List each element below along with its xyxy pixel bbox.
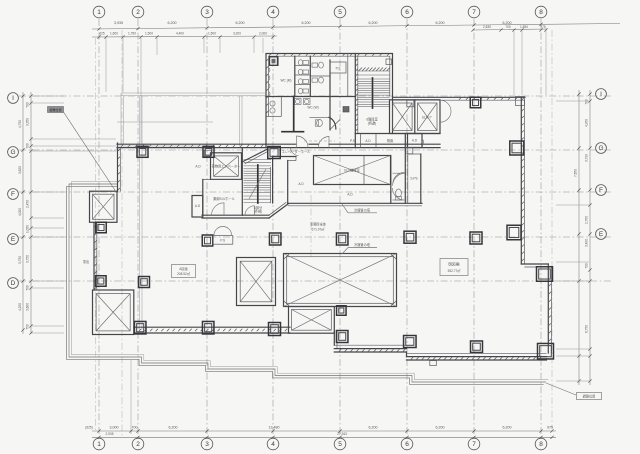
svg-text:1,850: 1,850	[520, 25, 528, 29]
svg-text:(特避): (特避)	[368, 121, 377, 126]
svg-text:975: 975	[540, 25, 546, 29]
right wall jog at E	[521, 264, 548, 267]
toilet stalls left	[295, 60, 310, 94]
svg-text:6,200: 6,200	[236, 21, 245, 25]
svg-text:G: G	[598, 145, 603, 152]
svg-text:WC (M): WC (M)	[281, 79, 292, 83]
T-shaped pier wall	[282, 97, 304, 132]
svg-text:6,200: 6,200	[436, 21, 445, 25]
svg-text:3,935: 3,935	[114, 21, 123, 25]
AD box right of elevators	[408, 134, 424, 148]
svg-text:2,000: 2,000	[259, 32, 267, 36]
svg-text:3,200: 3,200	[233, 32, 241, 36]
svg-text:6,200: 6,200	[302, 21, 311, 25]
svg-text:6,200: 6,200	[169, 425, 178, 429]
svg-text:冷媒管の塔: 冷媒管の塔	[354, 208, 371, 213]
svg-text:A.D: A.D	[365, 139, 371, 143]
roomlets strip below stair 2	[350, 134, 440, 148]
elevator hall walls	[203, 179, 242, 215]
void box B with X	[237, 258, 276, 306]
columns on south band	[134, 321, 146, 334]
column right wall jog	[537, 267, 553, 282]
svg-text:A.D: A.D	[347, 193, 353, 197]
wall from grid4 column to machine area	[273, 156, 296, 158]
svg-text:2: 2	[136, 9, 140, 16]
svg-text:A区画: A区画	[179, 266, 188, 271]
stair 1 treads	[244, 160, 272, 203]
extension line below S2	[95, 38, 97, 430]
svg-text:P.S: P.S	[220, 239, 225, 243]
svg-text:208.52㎡: 208.52㎡	[177, 271, 191, 276]
column below S1	[96, 222, 107, 233]
svg-text:避難位置: 避難位置	[583, 394, 596, 399]
stair 2 upper hatch band	[359, 68, 391, 72]
freight elevator shaft	[204, 150, 241, 179]
svg-text:F: F	[599, 187, 603, 194]
svg-text:A.D: A.D	[195, 204, 201, 208]
AD shaft box at core bottom left	[192, 196, 203, 218]
svg-text:2,935: 2,935	[106, 432, 114, 436]
svg-text:1: 1	[97, 441, 101, 448]
svg-text:D: D	[11, 280, 16, 287]
svg-text:E: E	[599, 231, 604, 238]
svg-text:6,200: 6,200	[369, 425, 378, 429]
svg-text:4: 4	[271, 441, 275, 448]
column below void A	[337, 306, 347, 316]
svg-text:8: 8	[539, 441, 543, 448]
bottom dimension lines	[85, 425, 556, 439]
core top wall along G	[117, 145, 202, 147]
svg-text:3: 3	[205, 9, 209, 16]
grid bubbles bottom	[93, 438, 105, 450]
svg-text:4: 4	[271, 9, 275, 16]
svg-text:700: 700	[26, 102, 30, 108]
svg-text:1,500: 1,500	[208, 32, 216, 36]
escape position label top left	[48, 107, 118, 195]
svg-text:避難位置: 避難位置	[49, 107, 61, 112]
svg-text:7: 7	[472, 441, 476, 448]
svg-text:6,200: 6,200	[168, 21, 177, 25]
svg-text:3,750: 3,750	[18, 256, 22, 264]
svg-text:荷物用エレベーター: 荷物用エレベーター	[212, 164, 241, 169]
core chamfer wall	[269, 202, 289, 218]
right dimension lines	[556, 90, 592, 385]
svg-text:F: F	[11, 191, 15, 198]
svg-text:12,480: 12,480	[269, 425, 280, 429]
WC(M) room walls	[266, 56, 330, 96]
svg-text:(625): (625)	[85, 426, 92, 430]
stair 2 center rail	[372, 78, 374, 108]
svg-text:1,500: 1,500	[145, 32, 153, 36]
svg-text:700: 700	[585, 263, 589, 269]
stalls right section	[310, 56, 330, 130]
lower floor outline (faint)	[117, 93, 265, 330]
svg-text:5: 5	[338, 9, 342, 16]
svg-text:P.S: P.S	[350, 139, 355, 143]
void box C with X	[289, 307, 335, 334]
right outer wall lower	[548, 264, 551, 353]
svg-text:700: 700	[505, 25, 511, 29]
south wall band step 2	[334, 345, 406, 352]
terrace edge lines	[67, 182, 549, 385]
svg-text:3,620: 3,620	[18, 166, 22, 174]
svg-text:A.D: A.D	[195, 165, 201, 169]
svg-text:3,400: 3,400	[585, 239, 589, 247]
leader label 2	[342, 242, 377, 254]
svg-text:4,400: 4,400	[176, 32, 184, 36]
column grid G right wall	[510, 141, 524, 155]
small WC room below AD	[393, 173, 405, 201]
machine area left wall	[288, 157, 296, 204]
svg-text:6,200: 6,200	[503, 425, 512, 429]
accessible WC room	[310, 117, 341, 129]
svg-text:2,450: 2,450	[26, 200, 30, 208]
svg-text:700: 700	[26, 285, 30, 291]
stair 1 left wall	[241, 148, 243, 216]
svg-text:6: 6	[405, 441, 409, 448]
stair 2 treads	[358, 71, 390, 107]
grid4 column at core	[268, 147, 281, 159]
dimension extension lines right	[556, 100, 589, 102]
svg-text:2: 2	[136, 441, 140, 448]
column grid E right wall	[507, 225, 521, 240]
svg-text:P.S: P.S	[336, 67, 341, 71]
SPS room walls	[405, 134, 421, 204]
svg-text:乗用ELVホール: 乗用ELVホール	[213, 196, 236, 201]
svg-text:1,750: 1,750	[128, 32, 136, 36]
south band vertical drop	[334, 331, 337, 348]
svg-text:1: 1	[97, 9, 101, 16]
stair 2 left wall	[355, 54, 358, 148]
toilet block bottom door arcs	[297, 136, 330, 148]
svg-text:I: I	[12, 95, 14, 102]
svg-text:3,000: 3,000	[110, 425, 119, 429]
dimension extension lines left	[32, 95, 64, 97]
free columns row E	[202, 235, 213, 246]
svg-text:6,200: 6,200	[436, 425, 445, 429]
svg-text:27,263: 27,263	[337, 432, 347, 436]
svg-text:3,750: 3,750	[26, 255, 30, 263]
grid bubbles top	[93, 6, 105, 18]
cooling tower X-rect	[314, 156, 391, 185]
svg-text:4,950: 4,950	[585, 119, 589, 127]
free column row D grid2	[139, 277, 150, 288]
svg-text:墨出: 墨出	[83, 259, 89, 264]
stair 1 right wall	[272, 157, 274, 204]
escape position label bottom right	[546, 383, 602, 400]
svg-text:2,630: 2,630	[483, 25, 491, 29]
door arc at elevator hall upper	[291, 148, 299, 156]
small dark utility box	[343, 107, 349, 113]
svg-text:1,600: 1,600	[110, 32, 118, 36]
south wall band step 1	[134, 327, 290, 333]
dark corner box toilet block	[270, 57, 278, 66]
svg-text:S.PS: S.PS	[410, 177, 417, 181]
top-right outer wall	[393, 97, 526, 100]
urinals on left wall	[269, 67, 270, 96]
svg-text:975: 975	[547, 425, 553, 429]
svg-text:1,050: 1,050	[26, 225, 30, 233]
large void rectangle A with X	[284, 254, 397, 307]
core bottom wall	[202, 215, 269, 218]
grid bubbles right	[596, 89, 607, 100]
dimension extension lines top	[106, 31, 546, 143]
svg-text:7: 7	[472, 9, 476, 16]
wash room lower left	[266, 97, 281, 117]
svg-text:ELV=7: ELV=7	[422, 116, 432, 120]
svg-text:700: 700	[26, 143, 30, 149]
svg-text:4,250: 4,250	[18, 303, 22, 311]
machine area right wall	[390, 156, 392, 204]
stair 1 rails	[258, 165, 271, 203]
elevator lobby door arc	[440, 100, 451, 122]
svg-text:2,700: 2,700	[585, 216, 589, 224]
svg-text:エレベーターホール: エレベーターホール	[282, 149, 311, 154]
stair 2 vent box	[386, 59, 392, 65]
small door mark below band	[430, 361, 437, 366]
svg-text:WC (W): WC (W)	[307, 105, 318, 109]
shaft S2 with X	[93, 290, 134, 335]
B section area label	[440, 259, 468, 276]
svg-text:3,790: 3,790	[585, 154, 589, 162]
svg-text:6,200: 6,200	[369, 21, 378, 25]
passenger elevator bank	[390, 100, 441, 134]
svg-text:6: 6	[405, 9, 409, 16]
south wall band step 3	[407, 352, 547, 360]
top dimension lines	[92, 21, 620, 38]
column grid7 on top wall	[470, 97, 481, 108]
shaft S1 with X	[90, 191, 118, 222]
svg-text:(外部): (外部)	[254, 208, 263, 213]
toilet block outline	[266, 54, 393, 148]
svg-text:A.D: A.D	[412, 139, 418, 143]
svg-text:3,350: 3,350	[26, 118, 30, 126]
svg-text:ELV機械室: ELV機械室	[344, 168, 359, 173]
right outer wall upper	[521, 97, 524, 264]
stair 2 room right wall	[392, 97, 394, 134]
column on left wall at D	[96, 276, 107, 287]
svg-text:5: 5	[338, 441, 342, 448]
left dimension lines	[18, 92, 116, 335]
stair 1 top-left chamfer	[243, 150, 267, 165]
grid bubbles left	[8, 93, 19, 104]
svg-text:3,600: 3,600	[26, 303, 30, 311]
svg-text:4,750: 4,750	[18, 120, 22, 128]
leader label 1	[342, 204, 377, 213]
top-right corner box	[516, 97, 525, 106]
WC(W) basins	[295, 99, 319, 110]
svg-text:700: 700	[132, 425, 138, 429]
A section area label	[172, 265, 196, 278]
machine area bottom wall	[288, 203, 422, 206]
svg-text:事務所全体: 事務所全体	[310, 222, 327, 227]
svg-text:625: 625	[99, 32, 105, 36]
stair 1 direction arrow	[249, 169, 266, 199]
svg-text:700: 700	[585, 99, 589, 105]
svg-text:G: G	[10, 149, 15, 156]
service room walls right	[330, 54, 356, 97]
svg-text:6,750: 6,750	[585, 325, 589, 333]
svg-text:671.07㎡: 671.07㎡	[312, 227, 326, 232]
columns on G wall row	[137, 146, 148, 157]
door arc hall left	[212, 203, 225, 215]
office total area label	[310, 222, 327, 232]
svg-text:E: E	[11, 236, 16, 243]
svg-text:A.D: A.D	[298, 182, 304, 186]
svg-text:750: 750	[26, 324, 30, 330]
door arcs right of machine area	[393, 173, 406, 186]
svg-text:3: 3	[205, 441, 209, 448]
door arc hall right	[245, 206, 255, 215]
stair room label	[366, 117, 377, 126]
PS box top	[330, 62, 346, 73]
svg-text:4,000: 4,000	[18, 208, 22, 216]
upper-left wing top wall	[117, 144, 440, 147]
svg-text:7,650: 7,650	[574, 169, 578, 177]
svg-text:物置: 物置	[387, 138, 393, 143]
left wall middle section	[94, 223, 97, 291]
upper-left wing left wall	[118, 143, 121, 192]
corridor dashed ceiling line	[304, 140, 335, 142]
svg-text:I: I	[600, 91, 602, 98]
svg-text:352.77㎡: 352.77㎡	[448, 268, 462, 273]
svg-text:8: 8	[539, 9, 543, 16]
column bottom right corner	[538, 343, 554, 359]
svg-text:冷媒管の塔: 冷媒管の塔	[354, 242, 371, 247]
